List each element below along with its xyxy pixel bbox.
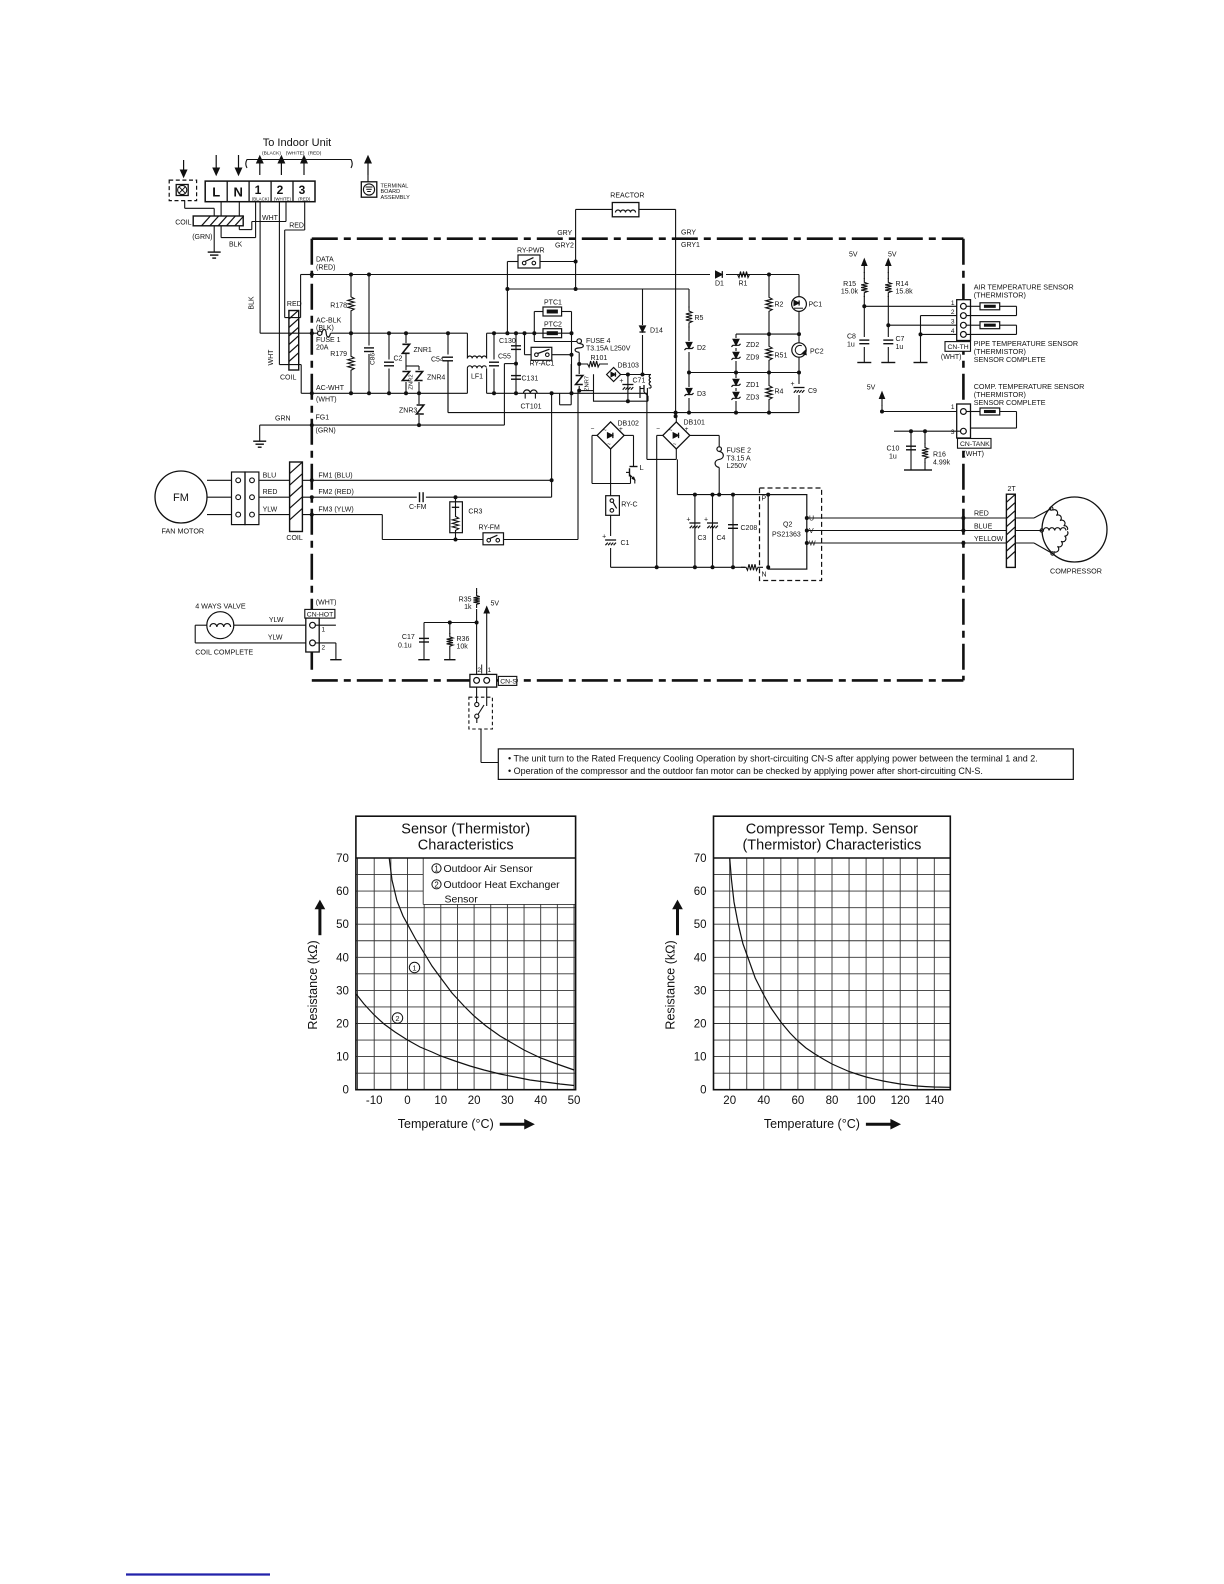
svg-text:C208: C208 <box>741 525 758 532</box>
wire W (YELLOW) <box>807 542 1007 544</box>
svg-text:2: 2 <box>395 1014 399 1023</box>
svg-text:FUSE 2: FUSE 2 <box>727 448 752 455</box>
svg-text:N: N <box>762 572 767 579</box>
arrow into earth screw terminal <box>183 160 185 172</box>
PCB border left <box>310 239 313 673</box>
varistor ZNR2 <box>400 370 412 382</box>
svg-text:U: U <box>809 516 814 523</box>
svg-text:2: 2 <box>477 667 481 674</box>
svg-text:20: 20 <box>468 1095 481 1107</box>
svg-text:COMPRESSOR: COMPRESSOR <box>1050 567 1102 576</box>
svg-text:COIL: COIL <box>280 375 296 382</box>
svg-text:RY-PWR: RY-PWR <box>517 248 545 255</box>
svg-text:~: ~ <box>673 442 677 448</box>
svg-text:50: 50 <box>568 1095 581 1107</box>
svg-text:2: 2 <box>277 183 284 197</box>
svg-text:(BLACK): (BLACK) <box>262 151 281 157</box>
wire FM2 RED with C-FM <box>259 496 290 498</box>
svg-text:1: 1 <box>951 300 955 307</box>
svg-text:BLU: BLU <box>263 472 277 479</box>
resistor CR3 <box>450 502 463 533</box>
svg-text:15.8k: 15.8k <box>896 289 914 296</box>
capacitor C71 <box>627 375 629 402</box>
svg-text:BLK: BLK <box>249 296 256 310</box>
fuse FUSE 4 <box>577 339 582 344</box>
common rail y412.6 <box>448 412 799 414</box>
node line y334 <box>736 333 799 335</box>
IGBT L (PFC switch) <box>592 434 597 436</box>
net AC-WHT <box>312 392 468 394</box>
resistor R51 <box>766 334 772 372</box>
capacitor C17 <box>424 622 477 624</box>
svg-text:40: 40 <box>694 952 707 964</box>
svg-text:D2: D2 <box>697 345 706 352</box>
svg-text:DB103: DB103 <box>618 363 640 370</box>
PCB border top <box>312 237 964 240</box>
svg-text:CN-TH: CN-TH <box>948 344 969 351</box>
svg-text:Temperature (°C): Temperature (°C) <box>398 1117 494 1131</box>
terminal 2T hatched <box>1006 494 1015 567</box>
svg-text:To Indoor Unit: To Indoor Unit <box>263 137 331 149</box>
svg-text:YLW: YLW <box>269 617 284 624</box>
footer rule <box>126 1573 270 1575</box>
svg-text:D14: D14 <box>650 328 663 335</box>
zener ZD1 <box>735 373 737 413</box>
svg-text:(THERMISTOR): (THERMISTOR) <box>974 290 1026 299</box>
wire RY-FM return up <box>577 391 579 540</box>
svg-text:P: P <box>762 496 767 503</box>
svg-text:PS21363: PS21363 <box>772 532 801 539</box>
svg-text:RED: RED <box>974 511 989 518</box>
svg-text:1: 1 <box>434 864 438 873</box>
net GRY1 (right reactor lead) <box>675 209 677 416</box>
ferrite coil on RED/WHT wires (vertical hatched) <box>289 311 299 371</box>
relay RY-C <box>610 449 612 496</box>
svg-text:0: 0 <box>700 1085 706 1097</box>
5V supply comp sensor <box>881 395 883 406</box>
earth coil (GRN) hatched <box>184 201 186 209</box>
svg-text:~: ~ <box>607 442 611 448</box>
svg-text:RED: RED <box>287 301 302 308</box>
svg-text:R14: R14 <box>896 281 909 288</box>
thermistor air sensor <box>966 305 980 307</box>
svg-text:5V: 5V <box>491 600 500 607</box>
capacitor C208 <box>732 495 734 568</box>
svg-text:(RED): (RED) <box>316 265 335 272</box>
svg-text:YELLOW: YELLOW <box>974 536 1004 543</box>
svg-text:(WHITE): (WHITE) <box>286 151 305 157</box>
terminal board assembly symbol <box>367 161 369 175</box>
svg-text:1: 1 <box>255 183 262 197</box>
svg-text:R179: R179 <box>330 351 347 358</box>
svg-text:0.1u: 0.1u <box>398 642 412 649</box>
svg-text:FM2 (RED): FM2 (RED) <box>318 489 353 496</box>
bridge DB103 <box>607 368 621 382</box>
svg-text:YLW: YLW <box>268 635 283 642</box>
SMPS inner box <box>594 374 648 401</box>
svg-text:Sensor: Sensor <box>445 894 479 906</box>
wire RY-PWR to divider rail <box>507 288 689 290</box>
wire SMPS to AC-WHT return <box>559 393 561 405</box>
svg-text:60: 60 <box>336 886 349 898</box>
svg-text:70: 70 <box>336 853 349 865</box>
wire BLK from terminal 1 down to AC-BLK <box>259 202 261 334</box>
bridge DB102 <box>597 422 624 449</box>
svg-text:GRY1: GRY1 <box>681 242 700 249</box>
svg-text:FM3 (YLW): FM3 (YLW) <box>318 507 353 514</box>
wire to FUSE4 <box>533 333 535 341</box>
svg-text:(WHITE): (WHITE) <box>274 196 292 201</box>
border crossing dots FM wires <box>310 478 314 482</box>
svg-text:20A: 20A <box>316 344 329 351</box>
diode D2 <box>683 341 695 352</box>
svg-text:C-FM: C-FM <box>409 504 427 511</box>
net FG1 (GRN) <box>312 424 505 426</box>
fan coil hatched <box>290 462 303 532</box>
svg-text:60: 60 <box>694 886 707 898</box>
svg-text:0: 0 <box>342 1085 348 1097</box>
capacitor C130 <box>515 333 517 363</box>
varistor ZNR1 <box>405 333 407 393</box>
svg-text:(RED): (RED) <box>298 196 311 201</box>
svg-text:(WHT): (WHT) <box>963 451 984 458</box>
capacitor C86 <box>368 275 370 394</box>
svg-text:R35: R35 <box>459 596 472 603</box>
svg-text:CR3: CR3 <box>468 509 482 516</box>
diode D3 <box>688 373 690 413</box>
svg-text:+: + <box>686 517 690 524</box>
svg-text:WHT: WHT <box>268 349 275 366</box>
svg-text:BLUE: BLUE <box>974 524 993 531</box>
svg-text:R1: R1 <box>739 281 748 288</box>
svg-text:WHT: WHT <box>262 215 279 222</box>
capacitor C131 <box>515 364 517 394</box>
svg-text:W: W <box>809 541 816 548</box>
svg-text:PTC2: PTC2 <box>544 322 562 329</box>
svg-text:GRY: GRY <box>557 230 572 237</box>
wire YLW to CN-HOT pin1 <box>234 624 310 626</box>
svg-text:60: 60 <box>792 1095 805 1107</box>
ground GRN <box>213 226 215 252</box>
svg-text:V: V <box>809 528 814 535</box>
resistor R36 <box>449 623 451 660</box>
svg-text:10k: 10k <box>457 643 469 650</box>
svg-text:C8: C8 <box>847 334 856 341</box>
svg-text:+: + <box>685 426 689 433</box>
wire DB101 minus to N rail <box>657 434 664 436</box>
svg-text:RY-FM: RY-FM <box>479 525 501 532</box>
svg-text:FUSE 4: FUSE 4 <box>586 338 611 345</box>
resistor R2 <box>766 275 772 335</box>
svg-text:AC-WHT: AC-WHT <box>316 385 345 392</box>
svg-text:ASSEMBLY: ASSEMBLY <box>381 195 411 201</box>
svg-text:40: 40 <box>336 952 349 964</box>
resistor R179 <box>348 333 354 393</box>
svg-text:L: L <box>640 463 644 472</box>
svg-text:(WHT): (WHT) <box>316 600 337 607</box>
svg-text:SENSOR COMPLETE: SENSOR COMPLETE <box>974 398 1046 407</box>
net GRY2 (left reactor lead) <box>575 209 577 261</box>
wire R35 to CN-S pin2 <box>476 623 478 676</box>
SMPS transformer winding <box>649 375 651 386</box>
svg-text:ZD3: ZD3 <box>746 395 759 402</box>
svg-text:Resistance (kΩ): Resistance (kΩ) <box>306 940 320 1029</box>
svg-text:0: 0 <box>404 1095 410 1107</box>
svg-text:1: 1 <box>412 964 416 973</box>
wire YLW to CN-HOT pin2 <box>195 624 207 626</box>
5V supply R14 <box>887 262 889 273</box>
svg-text:N: N <box>234 185 243 200</box>
svg-text:1k: 1k <box>464 604 472 611</box>
svg-text:C9: C9 <box>808 388 817 395</box>
capacitor C8 <box>863 306 865 362</box>
fuse FUSE 2 <box>718 447 720 449</box>
svg-text:D3: D3 <box>697 391 706 398</box>
svg-text:140: 140 <box>925 1095 944 1107</box>
svg-text:Outdoor Heat Exchanger: Outdoor Heat Exchanger <box>444 879 561 891</box>
connector CN-TANK <box>957 404 971 438</box>
PCB border right <box>962 239 965 681</box>
current transformer CT101 <box>523 392 537 394</box>
wire U (RED) <box>807 517 1007 519</box>
svg-text:C86: C86 <box>370 353 377 365</box>
svg-text:(BLACK): (BLACK) <box>252 196 270 201</box>
svg-text:LF1: LF1 <box>471 374 483 381</box>
thermistor comp sensor <box>966 411 980 413</box>
svg-text:1u: 1u <box>896 344 904 351</box>
capacitor C55 <box>493 333 495 393</box>
resistor R178 <box>348 275 354 334</box>
svg-text:YLW: YLW <box>263 507 278 514</box>
svg-text:~: ~ <box>603 428 607 434</box>
capacitor C7 <box>887 325 889 362</box>
svg-text:10: 10 <box>336 1052 349 1064</box>
svg-text:R178: R178 <box>330 303 347 310</box>
svg-text:ZD2: ZD2 <box>746 342 759 349</box>
short-circuit switch (dashed) <box>469 697 493 729</box>
svg-text:FG1: FG1 <box>316 415 330 422</box>
svg-text:2: 2 <box>951 309 955 316</box>
earth screw terminal (dashed) <box>169 180 196 201</box>
svg-text:+: + <box>619 378 623 385</box>
svg-text:50: 50 <box>336 919 349 931</box>
capacitor C2 <box>388 333 390 393</box>
svg-text:20: 20 <box>723 1095 736 1107</box>
wire CN-TH pins2/4 to ground <box>921 315 961 317</box>
svg-text:ZNR3: ZNR3 <box>399 408 417 415</box>
svg-text:20: 20 <box>336 1019 349 1031</box>
line-filter LF1 <box>466 333 468 358</box>
terminal board L N 1 2 3 <box>205 181 315 202</box>
svg-text:C2: C2 <box>394 356 403 363</box>
PCB border bottom <box>312 679 964 682</box>
wire AC-WHT to DB101 <box>572 392 647 394</box>
svg-text:C131: C131 <box>522 376 539 383</box>
wire PTC node down to AC-WHT <box>571 333 573 393</box>
svg-text:CN-TANK: CN-TANK <box>960 441 990 448</box>
varistor ZNR4 <box>406 365 419 367</box>
fan motor FM <box>155 471 207 523</box>
svg-text:3: 3 <box>299 183 306 197</box>
svg-text:+: + <box>704 517 708 524</box>
svg-text:RY-AC1: RY-AC1 <box>530 361 555 368</box>
svg-text:C55: C55 <box>498 354 511 361</box>
wire WHT from terminal 2 down to AC-WHT <box>278 202 280 365</box>
svg-text:C10: C10 <box>887 446 900 453</box>
svg-text:R36: R36 <box>457 636 470 643</box>
svg-text:ZNR7: ZNR7 <box>585 376 591 391</box>
svg-text:4: 4 <box>951 328 955 335</box>
N rail bottom <box>611 566 745 568</box>
svg-text:30: 30 <box>694 985 707 997</box>
varistor ZNR7 <box>578 364 580 391</box>
compressor motor <box>1042 497 1107 562</box>
svg-text:80: 80 <box>826 1095 839 1107</box>
svg-text:GRY: GRY <box>681 230 696 237</box>
net DATA (RED) <box>312 274 769 276</box>
svg-text:(GRN): (GRN) <box>316 428 336 435</box>
svg-text:PC1: PC1 <box>809 302 823 309</box>
wire L through coil to terminal 1 (BLK) <box>220 202 222 216</box>
varistor ZNR3 to FG1 <box>418 393 420 425</box>
svg-text:PC2: PC2 <box>810 349 824 356</box>
svg-text:20: 20 <box>694 1019 707 1031</box>
wire N through coil to terminal 2 (WHT) <box>238 202 240 216</box>
svg-text:CN-S: CN-S <box>500 679 517 686</box>
capacitor C54 <box>447 333 449 412</box>
svg-text:C54: C54 <box>431 357 444 364</box>
svg-text:ZNR4: ZNR4 <box>427 375 445 382</box>
svg-text:Sensor (Thermistor): Sensor (Thermistor) <box>401 822 530 838</box>
svg-text:1: 1 <box>951 404 955 411</box>
svg-text:COIL: COIL <box>175 220 191 227</box>
svg-text:CT101: CT101 <box>521 404 542 411</box>
wire FM3 YLW <box>259 514 290 516</box>
svg-text:COIL: COIL <box>286 535 302 542</box>
svg-text:+: + <box>602 534 606 541</box>
svg-text:REACTOR: REACTOR <box>610 193 644 200</box>
svg-text:C71: C71 <box>633 378 646 385</box>
switching MOSFET <box>649 387 651 389</box>
diode D1 on DATA line <box>710 269 726 280</box>
svg-text:ZD9: ZD9 <box>746 355 759 362</box>
5V supply R15 <box>863 262 865 273</box>
note box <box>498 749 1073 780</box>
svg-text:C1: C1 <box>621 540 630 547</box>
svg-text:R16: R16 <box>933 452 946 459</box>
svg-text:FM: FM <box>173 492 189 504</box>
bracket over indoor-unit wires <box>246 160 352 169</box>
svg-text:(WHT): (WHT) <box>316 397 337 404</box>
diode D14 <box>642 289 644 375</box>
svg-text:C3: C3 <box>698 535 707 542</box>
svg-text:CN-HOT: CN-HOT <box>307 611 333 618</box>
svg-text:Resistance (kΩ): Resistance (kΩ) <box>664 940 678 1029</box>
svg-text:15.0k: 15.0k <box>841 289 859 296</box>
AC-BLK extension to PTC node <box>494 332 572 334</box>
wire to CN-TH pin3 <box>888 324 960 326</box>
wire C130/C131 node to FG1 <box>504 363 516 365</box>
chart: Sensor (Thermistor) Characteristics <box>356 857 576 859</box>
wire GRN FG1 with ground <box>260 424 312 426</box>
svg-text:Outdoor Air Sensor: Outdoor Air Sensor <box>444 863 534 875</box>
svg-text:(WHT): (WHT) <box>941 354 962 361</box>
svg-text:70: 70 <box>694 853 707 865</box>
svg-text:(GRN): (GRN) <box>192 234 212 241</box>
svg-text:T3.15 A: T3.15 A <box>727 455 751 462</box>
svg-text:FM1 (BLU): FM1 (BLU) <box>318 472 352 479</box>
capacitor C9 electrolytic <box>798 373 800 413</box>
svg-text:ZD1: ZD1 <box>746 382 759 389</box>
wire FM1 BLU <box>259 479 290 481</box>
svg-text:30: 30 <box>501 1095 514 1107</box>
wire DATA end to PC1 <box>769 274 799 276</box>
IPM module Q2 PS21363 (dashed) <box>760 488 822 581</box>
node line y372.5 <box>689 372 799 374</box>
capacitor C3 electrolytic <box>694 495 696 568</box>
svg-text:1: 1 <box>487 667 491 674</box>
svg-text:5V: 5V <box>867 385 876 392</box>
svg-text:GRY2: GRY2 <box>555 243 574 250</box>
wire RED from terminal 3 to DATA <box>304 202 306 230</box>
svg-text:• The unit turn to the Rated F: • The unit turn to the Rated Frequency C… <box>508 753 1038 763</box>
capacitor C4 electrolytic <box>712 495 714 568</box>
svg-text:ZNR1: ZNR1 <box>414 347 432 354</box>
legend circled digits <box>432 864 441 873</box>
svg-text:T3.15A L250V: T3.15A L250V <box>586 346 631 353</box>
resistor shunt to N <box>741 564 763 570</box>
capacitor C10 <box>910 431 912 470</box>
svg-text:COIL COMPLETE: COIL COMPLETE <box>195 648 253 657</box>
svg-text:BLK: BLK <box>229 241 243 248</box>
svg-text:2: 2 <box>322 645 326 652</box>
svg-text:R4: R4 <box>775 389 784 396</box>
wire to CN-TH pin1 <box>864 305 960 307</box>
svg-text:DATA: DATA <box>316 257 334 264</box>
resistor R16 <box>924 431 926 470</box>
zener ZD2 <box>735 334 737 372</box>
wire arrows to indoor unit (terminals 1,2,3) <box>259 161 261 175</box>
supply arrows into L and N <box>215 155 217 170</box>
wire V (BLUE) <box>807 530 1007 532</box>
wire CN-TANK pin3 <box>894 430 960 432</box>
bridge DB101 <box>663 422 690 449</box>
svg-text:R2: R2 <box>775 302 784 309</box>
svg-text:GRN: GRN <box>275 416 291 423</box>
svg-text:−: − <box>591 426 595 433</box>
svg-text:10: 10 <box>434 1095 447 1107</box>
svg-text:Q2: Q2 <box>783 522 792 529</box>
svg-text:2: 2 <box>434 880 438 889</box>
svg-text:R5: R5 <box>695 315 704 322</box>
svg-text:1u: 1u <box>847 342 855 349</box>
thermistor pipe sensor <box>966 324 980 326</box>
svg-text:Compressor Temp. Sensor: Compressor Temp. Sensor <box>746 822 918 838</box>
svg-text:• Operation of the compressor: • Operation of the compressor and the ou… <box>508 766 983 776</box>
svg-text:DB102: DB102 <box>618 421 640 428</box>
svg-text:40: 40 <box>757 1095 770 1107</box>
optocoupler PC2 <box>798 334 800 343</box>
P rail top <box>677 494 768 496</box>
svg-text:4 WAYS VALVE: 4 WAYS VALVE <box>195 602 246 611</box>
wire to note box <box>481 762 498 764</box>
svg-text:R15: R15 <box>843 281 856 288</box>
svg-text:C130: C130 <box>499 338 516 345</box>
resistor R35 with 5V <box>476 588 478 623</box>
connector CN-TH <box>957 300 971 341</box>
svg-text:D1: D1 <box>715 281 724 288</box>
svg-text:Temperature (°C): Temperature (°C) <box>764 1117 860 1131</box>
